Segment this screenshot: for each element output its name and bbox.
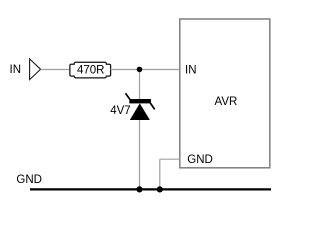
wire: AVR GND pin to corner xyxy=(160,158,180,160)
wire: resistor to junction xyxy=(111,69,140,71)
svg-text:GND: GND xyxy=(187,154,213,166)
junction node (top) xyxy=(137,67,143,73)
junction node (zener to ground rail) xyxy=(136,186,142,192)
wire: junction to AVR IN pin xyxy=(140,69,180,71)
resistor R 470R xyxy=(70,62,111,78)
svg-text:IN: IN xyxy=(185,64,197,76)
svg-text:470R: 470R xyxy=(77,64,105,76)
ground rail xyxy=(30,188,271,190)
svg-text:GND: GND xyxy=(16,174,42,186)
zener diode D 4V7 xyxy=(110,93,155,120)
net GND label xyxy=(16,174,42,186)
wire: junction down to zener cathode xyxy=(139,70,141,100)
wire: zener anode down to ground rail xyxy=(139,120,141,189)
IC U1 AVR xyxy=(180,19,270,168)
wire: corner down to ground rail xyxy=(159,159,161,189)
input port symbol (triangle) xyxy=(30,59,41,80)
node IN label xyxy=(10,64,22,76)
junction node (AVR GND to ground rail) xyxy=(157,186,163,192)
wire: port to resistor R xyxy=(41,69,71,71)
svg-text:IN: IN xyxy=(10,64,22,76)
svg-text:4V7: 4V7 xyxy=(110,105,130,117)
svg-text:AVR: AVR xyxy=(215,96,238,108)
